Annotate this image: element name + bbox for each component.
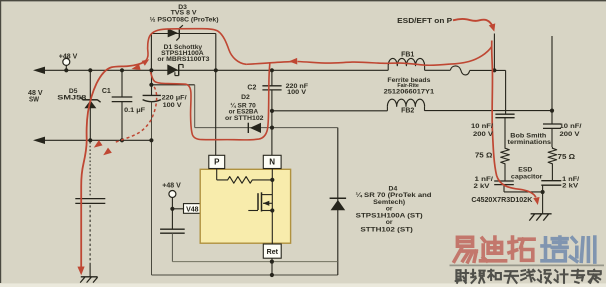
svg-text:SW: SW [29, 97, 39, 104]
svg-text:C1: C1 [102, 88, 111, 95]
svg-text:or MBRS1100T3: or MBRS1100T3 [157, 56, 209, 63]
svg-text:capacitor: capacitor [511, 173, 543, 180]
svg-text:75 Ω: 75 Ω [475, 152, 493, 159]
svg-text:200 V: 200 V [560, 131, 581, 138]
svg-text:Ret: Ret [267, 249, 279, 256]
svg-text:½ PSOT08C (ProTek): ½ PSOT08C (ProTek) [150, 16, 219, 24]
svg-text:V48: V48 [186, 206, 199, 213]
svg-text:75 Ω: 75 Ω [558, 154, 576, 161]
svg-text:or STTH102: or STTH102 [225, 115, 264, 122]
svg-text:C4520X7R3D102K: C4520X7R3D102K [471, 197, 532, 204]
svg-text:100 V: 100 V [163, 102, 182, 109]
svg-text:SMJ58: SMJ58 [57, 95, 86, 102]
svg-text:1 nF/: 1 nF/ [475, 176, 494, 183]
svg-text:C2: C2 [247, 84, 256, 91]
svg-text:N: N [269, 158, 275, 167]
svg-text:FB1: FB1 [401, 51, 414, 58]
svg-text:+48 V: +48 V [59, 53, 78, 60]
svg-text:ESD/EFT on P: ESD/EFT on P [397, 16, 452, 25]
svg-text:200 V: 200 V [473, 131, 494, 138]
svg-text:or: or [386, 219, 393, 226]
svg-text:10 nF/: 10 nF/ [471, 123, 493, 130]
svg-text:100 V: 100 V [287, 89, 306, 96]
svg-text:STTH102 (ST): STTH102 (ST) [360, 226, 413, 233]
svg-text:P: P [214, 158, 220, 167]
svg-text:2512066017Y1: 2512066017Y1 [384, 89, 435, 96]
svg-text:D2: D2 [241, 94, 250, 101]
svg-text:0.1 μF: 0.1 μF [124, 107, 145, 114]
svg-text:+48 V: +48 V [162, 183, 181, 190]
svg-text:2 kV: 2 kV [562, 183, 579, 190]
svg-text:TVS 8 V: TVS 8 V [171, 9, 197, 16]
svg-text:10 nF/: 10 nF/ [560, 123, 582, 130]
svg-text:2 kV: 2 kV [474, 183, 491, 190]
svg-text:FB2: FB2 [401, 108, 414, 115]
svg-text:terminations: terminations [508, 139, 552, 146]
svg-text:220 μF/: 220 μF/ [162, 95, 187, 102]
